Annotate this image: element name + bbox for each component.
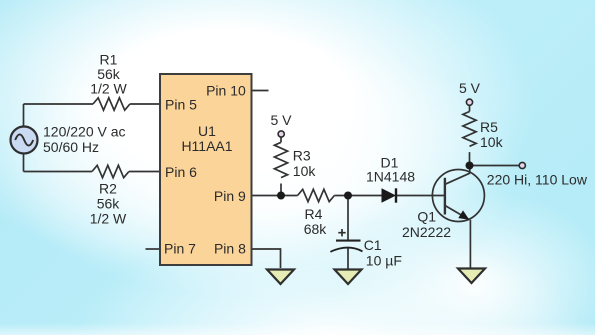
svg-text:220 Hi, 110 Low: 220 Hi, 110 Low	[487, 171, 588, 187]
svg-text:Pin 7: Pin 7	[164, 241, 196, 257]
svg-text:Pin 10: Pin 10	[206, 83, 246, 99]
svg-text:Pin 9: Pin 9	[214, 188, 246, 204]
svg-text:R2: R2	[99, 181, 117, 197]
svg-text:U1: U1	[198, 123, 216, 139]
svg-text:C1: C1	[364, 237, 382, 253]
svg-text:1N4148: 1N4148	[366, 169, 415, 185]
svg-text:5 V: 5 V	[270, 112, 292, 128]
svg-text:R4: R4	[305, 206, 323, 222]
svg-text:10 µF: 10 µF	[366, 252, 402, 268]
svg-text:1/2 W: 1/2 W	[90, 211, 127, 227]
svg-text:5 V: 5 V	[459, 80, 481, 96]
svg-text:68k: 68k	[304, 221, 328, 237]
svg-text:R3: R3	[293, 148, 311, 164]
svg-text:120/220 V ac: 120/220 V ac	[43, 123, 126, 139]
svg-text:1/2 W: 1/2 W	[90, 81, 127, 97]
svg-text:H11AA1: H11AA1	[181, 138, 232, 154]
svg-text:56k: 56k	[97, 196, 121, 212]
svg-text:Pin 5: Pin 5	[165, 97, 197, 113]
svg-text:50/60 Hz: 50/60 Hz	[43, 139, 99, 155]
svg-text:10k: 10k	[293, 163, 317, 179]
svg-text:Pin 8: Pin 8	[214, 241, 246, 257]
svg-text:Pin 6: Pin 6	[165, 164, 197, 180]
svg-text:10k: 10k	[480, 134, 504, 150]
svg-text:2N2222: 2N2222	[402, 224, 451, 240]
svg-text:R5: R5	[480, 119, 498, 135]
svg-text:Q1: Q1	[417, 209, 436, 225]
